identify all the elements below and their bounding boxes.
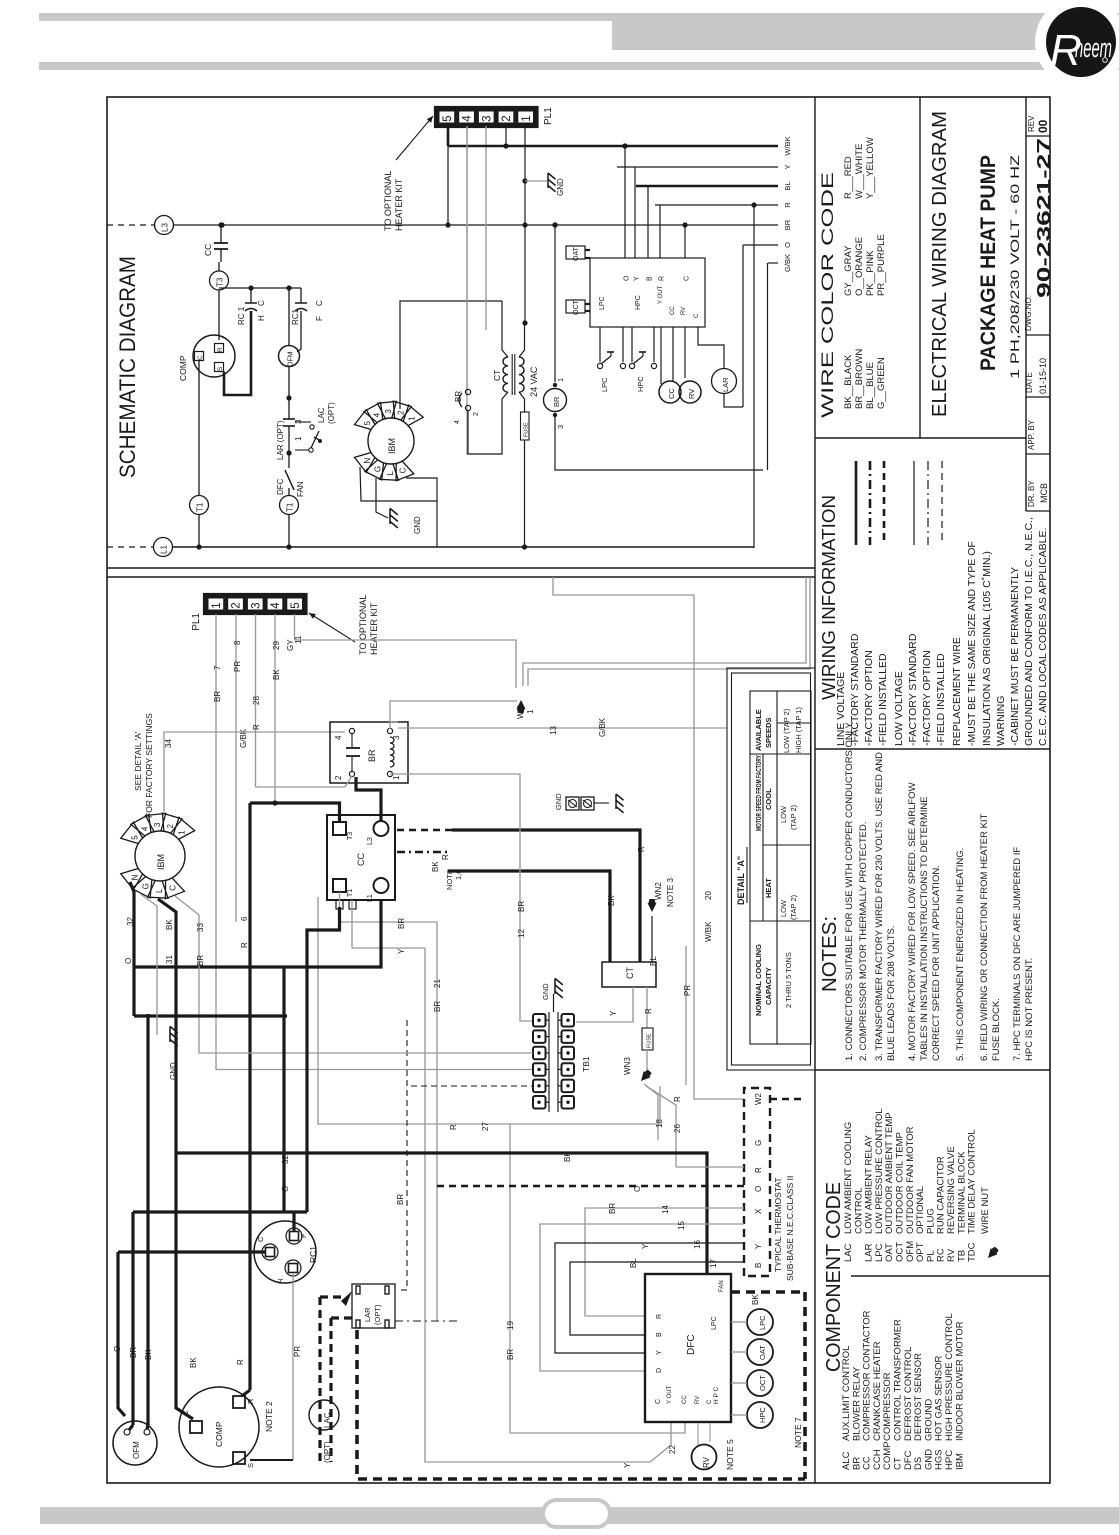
svg-text:-FIELD INSTALLED: -FIELD INSTALLED — [877, 653, 889, 746]
RV circle wiring — [692, 1445, 717, 1470]
svg-text:COMP: COMP — [178, 355, 188, 381]
BK thick wire to CT — [448, 871, 610, 962]
R 27 wire — [318, 897, 660, 1124]
svg-text:R: R — [656, 1314, 663, 1319]
svg-text:DFC: DFC — [686, 1334, 697, 1355]
CT transformer box wiring — [602, 962, 656, 987]
R thick wire to CT — [452, 830, 640, 962]
svg-text:RV: RV — [702, 1456, 711, 1468]
svg-text:HPC: HPC — [635, 295, 642, 310]
PL1 connector schematic — [436, 108, 538, 127]
svg-text:-FACTORY OPTION: -FACTORY OPTION — [921, 650, 933, 746]
svg-text:1: 1 — [521, 115, 533, 121]
wire BR3 right / G/BK 13 wire — [390, 722, 398, 729]
outdoor fan motor OFM — [279, 346, 300, 367]
svg-text:4: 4 — [334, 735, 343, 740]
run capacitor RC1 H C — [250, 288, 252, 303]
svg-text:LOW: LOW — [779, 805, 788, 823]
comp wires — [242, 1390, 250, 1396]
svg-text:Y___YELLOW: Y___YELLOW — [865, 137, 876, 199]
wire COMP C to T1 — [198, 361, 200, 496]
svg-text:G/BK: G/BK — [783, 254, 792, 272]
W/BK thick wire — [448, 145, 778, 148]
svg-text:N: N — [130, 874, 139, 880]
footer gray bar — [40, 1507, 1119, 1524]
svg-text:C: C — [197, 355, 204, 360]
sensor OAT — [747, 1339, 773, 1365]
svg-text:WN2: WN2 — [654, 882, 663, 900]
svg-text:WN: WN — [516, 705, 525, 719]
Y wire TB1 to CT — [576, 987, 633, 1022]
svg-text:PR: PR — [683, 985, 692, 996]
svg-text:NOTE 7: NOTE 7 — [793, 1417, 803, 1448]
header second thin gray bar — [39, 62, 1119, 70]
wire OFM down — [288, 367, 290, 399]
CC L3 wire thick — [356, 777, 381, 821]
svg-text:2: 2 — [501, 115, 513, 121]
LAR bottom to O wire — [724, 394, 743, 408]
svg-text:2. COMPRESSOR MOTOR THERMALLY: 2. COMPRESSOR MOTOR THERMALLY PROTECTED. — [858, 822, 869, 1061]
svg-text:R: R — [783, 202, 792, 208]
GND block mid — [566, 797, 579, 810]
svg-text:C.E.C. AND LOCAL CODES AS APPL: C.E.C. AND LOCAL CODES AS APPLICABLE. — [1037, 528, 1049, 746]
svg-text:RC 1: RC 1 — [237, 306, 246, 325]
svg-text:PR: PR — [233, 661, 242, 672]
BR relay box wiring — [330, 722, 408, 783]
svg-text:O: O — [113, 1346, 122, 1352]
svg-text:BK: BK — [165, 919, 174, 930]
svg-text:SPEEDS: SPEEDS — [764, 718, 773, 748]
svg-text:WN3: WN3 — [623, 1057, 632, 1075]
LAR OPT box wiring — [352, 1284, 395, 1328]
svg-text:BL: BL — [783, 181, 792, 190]
svg-text:5: 5 — [363, 420, 372, 425]
svg-text:TYPICAL THERMOSTAT: TYPICAL THERMOSTAT — [773, 1177, 783, 1272]
svg-text:B: B — [754, 1263, 763, 1268]
svg-text:3: 3 — [250, 602, 262, 608]
IBM lead 31 BK — [158, 899, 193, 1419]
Y wire — [617, 166, 778, 168]
svg-text:REV: REV — [1027, 115, 1036, 132]
svg-text:22: 22 — [668, 1445, 677, 1454]
svg-text:NOTES:: NOTES: — [819, 916, 841, 992]
svg-text:PL1: PL1 — [191, 613, 202, 631]
svg-text:(OPT): (OPT) — [327, 402, 336, 424]
wire RC1H to S thick — [224, 311, 251, 395]
component code divider — [851, 1275, 1050, 1277]
svg-text:12: 12 — [517, 929, 526, 938]
svg-text:IBM: IBM — [954, 1453, 965, 1470]
svg-text:B: B — [656, 1332, 663, 1337]
svg-text:Y: Y — [754, 1243, 763, 1249]
svg-text:RC1: RC1 — [291, 308, 300, 325]
svg-text:T3: T3 — [216, 277, 225, 287]
svg-text:O: O — [281, 1186, 290, 1192]
svg-text:PR__PURPLE: PR__PURPLE — [876, 234, 887, 296]
run capacitor RC1 wiring — [254, 1221, 316, 1283]
svg-text:PK__PINK: PK__PINK — [865, 250, 876, 296]
svg-text:3: 3 — [481, 115, 493, 121]
svg-text:CC: CC — [670, 306, 676, 315]
svg-text:1: 1 — [294, 436, 303, 441]
svg-text:4: 4 — [454, 420, 461, 424]
LPC switch schematic — [599, 327, 601, 362]
svg-text:LAR: LAR — [721, 377, 730, 392]
svg-text:BK: BK — [189, 1357, 198, 1368]
svg-text:20: 20 — [704, 891, 713, 900]
svg-text:LAC: LAC — [317, 407, 326, 423]
svg-text:G__GREEN: G__GREEN — [876, 357, 887, 409]
svg-text:CT: CT — [625, 967, 635, 979]
svg-text:Y: Y — [623, 1462, 632, 1468]
svg-text:17: 17 — [709, 1259, 718, 1268]
svg-text:19: 19 — [506, 1321, 515, 1330]
compressor COMP — [193, 335, 235, 377]
svg-text:2: 2 — [473, 412, 480, 416]
svg-text:01-15-10: 01-15-10 — [1038, 358, 1048, 394]
O 32 second — [282, 967, 285, 1212]
svg-text:OFM: OFM — [132, 1441, 141, 1459]
svg-text:Y OUT: Y OUT — [658, 285, 664, 304]
svg-text:BR: BR — [608, 1203, 617, 1214]
BL wire — [636, 185, 778, 188]
svg-text:NOTE 5: NOTE 5 — [725, 1439, 735, 1470]
svg-text:7. HPC TERMINALS ON DFC ARE JU: 7. HPC TERMINALS ON DFC ARE JUMPERED IF — [1012, 847, 1023, 1061]
svg-text:DR. BY: DR. BY — [1027, 480, 1036, 507]
svg-text:34: 34 — [164, 739, 173, 748]
svg-text:W2: W2 — [754, 1092, 763, 1105]
CT wires — [502, 301, 508, 357]
svg-text:C: C — [315, 300, 324, 306]
svg-text:LOW: LOW — [779, 899, 788, 917]
svg-text:5: 5 — [290, 602, 302, 608]
OAT sensor — [566, 246, 585, 259]
svg-text:GND: GND — [413, 516, 422, 534]
DFC bottom pin wires — [697, 1423, 699, 1445]
svg-text:L: L — [155, 888, 164, 893]
svg-text:BR: BR — [433, 1001, 442, 1012]
IBM N wire — [360, 467, 437, 547]
svg-text:RV: RV — [687, 389, 696, 399]
svg-text:R: R — [673, 1096, 682, 1102]
svg-text:24 VAC: 24 VAC — [529, 366, 539, 397]
svg-text:C: C — [181, 1410, 190, 1416]
O wire vertical — [742, 245, 744, 407]
svg-text:TDC: TDC — [967, 1242, 978, 1262]
svg-text:GROUNDED AND CONFORM TO I.E.C.: GROUNDED AND CONFORM TO I.E.C., N.E.C., — [1023, 517, 1035, 746]
svg-text:DETAIL "A": DETAIL "A" — [736, 856, 746, 905]
svg-text:GND: GND — [556, 178, 565, 196]
BL wire WN2 — [651, 916, 653, 962]
svg-text:REPLACEMENT WIRE: REPLACEMENT WIRE — [951, 637, 963, 746]
svg-text:32: 32 — [281, 1155, 290, 1164]
IBM lead BR 33 — [175, 896, 533, 1053]
svg-text:00: 00 — [1036, 119, 1050, 133]
svg-text:GND: GND — [554, 793, 563, 810]
svg-text:BK: BK — [431, 861, 440, 872]
svg-text:CT: CT — [492, 370, 502, 381]
18 wire — [644, 1084, 658, 1140]
svg-text:HPC: HPC — [758, 1407, 767, 1423]
wire nut legend — [985, 1245, 1000, 1261]
header top thin gray bar — [39, 13, 1119, 21]
svg-text:TIME DELAY CONTROL: TIME DELAY CONTROL — [967, 1129, 978, 1234]
terminal block TB1 — [533, 1014, 546, 1027]
svg-text:COMP: COMP — [214, 1421, 224, 1447]
svg-text:GY__GRAY: GY__GRAY — [843, 245, 854, 296]
svg-text:-FACTORY STANDARD: -FACTORY STANDARD — [907, 633, 919, 746]
svg-text:D: D — [656, 1368, 663, 1373]
svg-text:C: C — [168, 885, 177, 891]
svg-text:HPC: HPC — [636, 376, 645, 392]
BR dashed wire — [406, 1090, 408, 1290]
svg-text:W___WHITE: W___WHITE — [854, 144, 865, 199]
defrost board schematic — [590, 258, 705, 327]
svg-text:WIRING INFORMATION: WIRING INFORMATION — [819, 495, 839, 700]
PL1 pin stubs — [447, 126, 450, 146]
svg-text:2: 2 — [166, 823, 175, 828]
svg-text:Y: Y — [641, 1243, 650, 1249]
svg-text:Y OUT: Y OUT — [667, 1385, 673, 1404]
svg-text:H: H — [257, 315, 266, 321]
svg-text:SEE DETAIL 'A': SEE DETAIL 'A' — [133, 731, 143, 791]
FUSE schematic — [521, 412, 530, 440]
IBM G wire to GND — [376, 478, 388, 518]
svg-text:-CABINET MUST BE PERMANENTLY: -CABINET MUST BE PERMANENTLY — [1009, 567, 1021, 746]
svg-text:R: R — [637, 846, 646, 852]
svg-text:FUSE BLOCK.: FUSE BLOCK. — [991, 998, 1002, 1061]
O wire — [743, 244, 778, 246]
svg-text:4: 4 — [372, 412, 381, 417]
svg-text:R___RED: R___RED — [843, 156, 854, 199]
svg-text:31: 31 — [165, 955, 174, 964]
svg-text:1: 1 — [392, 775, 401, 780]
svg-text:Y: Y — [656, 1350, 663, 1355]
svg-text:BL: BL — [629, 1258, 638, 1268]
LAC circle OPT — [309, 1400, 339, 1430]
bus wire y470 — [555, 415, 763, 470]
svg-text:13: 13 — [549, 726, 558, 735]
svg-text:CAPACITY: CAPACITY — [764, 967, 773, 1005]
FUSE wiring — [642, 1028, 653, 1050]
svg-text:SCHEMATIC DIAGRAM: SCHEMATIC DIAGRAM — [115, 256, 140, 478]
svg-text:TABLES IN INSTALLATION INSTRUC: TABLES IN INSTALLATION INSTRUCTIONS TO D… — [919, 796, 930, 1061]
footer page pill — [543, 1500, 610, 1527]
sensor OCT — [747, 1370, 773, 1396]
svg-text:PR: PR — [293, 1346, 302, 1357]
PL1 connector wiring — [205, 595, 307, 614]
svg-text:(TAP 2): (TAP 2) — [789, 804, 798, 830]
DFC FAN defrost switch — [288, 453, 290, 468]
heater kit arrow schematic — [396, 116, 433, 160]
svg-text:2: 2 — [397, 410, 406, 415]
BR relay circle schematic — [552, 222, 557, 227]
L1 line circle — [154, 538, 173, 557]
svg-text:RV: RV — [681, 307, 687, 315]
svg-text:7: 7 — [213, 665, 222, 670]
node line y288 — [219, 287, 301, 289]
svg-text:PACKAGE HEAT PUMP: PACKAGE HEAT PUMP — [977, 155, 1000, 371]
LAC OPT switch — [295, 421, 311, 423]
svg-text:T1: T1 — [347, 889, 354, 897]
svg-text:RV: RV — [695, 1396, 701, 1404]
svg-text:4: 4 — [270, 602, 282, 609]
svg-text:HEATER KIT: HEATER KIT — [394, 178, 404, 231]
svg-text:4: 4 — [141, 826, 150, 831]
PL1 pin wires with labels — [216, 614, 533, 1070]
svg-text:R: R — [441, 854, 450, 860]
BK main thick wire — [176, 1153, 707, 1274]
svg-text:WIRE COLOR CODE: WIRE COLOR CODE — [818, 172, 837, 418]
svg-text:TB1: TB1 — [581, 1056, 591, 1072]
svg-text:28: 28 — [252, 696, 261, 705]
svg-text:-FACTORY OPTION: -FACTORY OPTION — [863, 650, 875, 746]
heavy dashed boundary — [357, 1330, 738, 1479]
svg-text:BR: BR — [196, 955, 205, 966]
svg-text:R: R — [217, 347, 224, 352]
gnd at bundle — [141, 894, 158, 1035]
HPC switch schematic — [631, 327, 633, 362]
svg-text:DWG.NO.: DWG.NO. — [1024, 295, 1033, 331]
svg-text:1: 1 — [178, 830, 187, 835]
svg-text:FAN: FAN — [296, 481, 305, 497]
T1 circle left — [190, 496, 209, 515]
svg-text:HEATER KIT: HEATER KIT — [369, 602, 379, 655]
svg-text:TO OPTIONAL: TO OPTIONAL — [383, 171, 393, 231]
Rheem logo — [1035, 0, 1119, 88]
CC contactor box wiring — [327, 815, 395, 900]
svg-text:L3: L3 — [161, 223, 170, 232]
bundle horizontals — [134, 1014, 287, 1017]
CC lower wires — [340, 892, 438, 922]
compressor COMP wiring — [179, 1387, 259, 1467]
svg-text:G: G — [373, 466, 382, 472]
Y OUT pin stub — [660, 327, 662, 384]
board top pin wires — [624, 146, 626, 258]
OCT sensor — [566, 300, 585, 313]
IBM blade2 wire up — [400, 301, 502, 409]
svg-text:BK__BLACK: BK__BLACK — [843, 354, 854, 409]
svg-text:1. CONNECTORS SUITABLE FOR USE: 1. CONNECTORS SUITABLE FOR USE WITH COPP… — [844, 721, 855, 1061]
second wire to WN — [523, 577, 806, 686]
svg-text:Y: Y — [397, 948, 406, 954]
svg-text:BR__BROWN: BR__BROWN — [854, 349, 865, 409]
svg-text:LAR: LAR — [363, 1307, 372, 1322]
svg-text:1: 1 — [211, 602, 223, 608]
svg-text:5. THIS COMPONENT ENERGIZED IN: 5. THIS COMPONENT ENERGIZED IN HEATING. — [955, 848, 966, 1061]
svg-text:T1: T1 — [286, 502, 295, 512]
svg-text:BLUE LEADS FOR 208 VOLTS.: BLUE LEADS FOR 208 VOLTS. — [886, 925, 897, 1061]
CC contactor coil circle — [672, 327, 674, 381]
R wire — [655, 204, 778, 206]
BR 19 wire — [510, 1124, 685, 1433]
svg-text:S: S — [217, 366, 224, 371]
svg-text:3. TRANSFORMER FACTORY WIRED F: 3. TRANSFORMER FACTORY WIRED FOR 230 VOL… — [874, 752, 885, 1061]
wire nut WN 1 — [517, 700, 526, 713]
svg-text:G/BK: G/BK — [598, 717, 607, 737]
notes bottom line — [815, 1069, 1050, 1071]
L3 rail wire — [174, 224, 779, 226]
svg-text:SUB-BASE N.E.C.CLASS II: SUB-BASE N.E.C.CLASS II — [785, 1176, 795, 1281]
svg-text:90-23621-27: 90-23621-27 — [1034, 138, 1054, 298]
L3 line circle — [155, 216, 174, 235]
svg-text:O__ORANGE: O__ORANGE — [854, 237, 865, 296]
svg-text:W/BK: W/BK — [704, 921, 713, 942]
svg-text:ELECTRICAL WIRING DIAGRAM: ELECTRICAL WIRING DIAGRAM — [929, 111, 951, 417]
svg-text:BK: BK — [272, 669, 281, 680]
svg-text:3: 3 — [556, 425, 565, 429]
svg-text:MCB: MCB — [1039, 483, 1049, 503]
BR coil — [387, 728, 392, 733]
svg-text:32: 32 — [126, 917, 135, 926]
svg-text:IBM: IBM — [387, 438, 397, 454]
svg-text:OAT: OAT — [573, 246, 580, 261]
svg-text:27: 27 — [481, 1122, 490, 1131]
svg-text:B: B — [647, 276, 654, 281]
svg-text:Y: Y — [634, 276, 641, 281]
dashed O wire to TB1 — [407, 1020, 533, 1086]
svg-text:L3: L3 — [367, 837, 374, 845]
12 BR wire — [390, 774, 533, 1021]
main feed horizontal — [134, 900, 381, 967]
svg-text:5: 5 — [130, 835, 139, 840]
svg-text:BK: BK — [144, 1349, 153, 1360]
W2 wire dashed — [770, 1098, 805, 1100]
svg-text:FUSE: FUSE — [524, 422, 530, 437]
svg-text:BR: BR — [213, 691, 222, 702]
svg-text:LOW (TAP 2): LOW (TAP 2) — [782, 708, 791, 753]
svg-text:BL: BL — [649, 956, 658, 966]
LAR coil circle — [698, 327, 724, 369]
svg-text:BK: BK — [751, 1294, 760, 1305]
svg-text:T3: T3 — [347, 832, 354, 840]
CC T3 wire thick — [250, 803, 340, 822]
svg-text:IBM: IBM — [156, 854, 166, 870]
svg-text:29: 29 — [272, 641, 281, 650]
heavy dashed LAC wires — [318, 1297, 321, 1462]
svg-text:FUSE: FUSE — [647, 1033, 653, 1048]
svg-text:C: C — [655, 1399, 662, 1404]
svg-text:BR: BR — [517, 901, 526, 912]
svg-text:WIRE NUT: WIRE NUT — [980, 1187, 991, 1234]
svg-text:INSULATION AS ORIGINAL (105 C˚: INSULATION AS ORIGINAL (105 C˚MIN.) — [981, 551, 993, 746]
right column divider — [814, 97, 816, 1483]
svg-text:F: F — [315, 316, 324, 321]
svg-text:LPC: LPC — [599, 296, 606, 310]
RC1 H wire PR — [292, 1274, 294, 1460]
G/BK wire — [768, 262, 778, 264]
svg-text:2 THRU 5 TONS: 2 THRU 5 TONS — [784, 952, 793, 1008]
LAR OPT capacitor — [288, 398, 290, 419]
svg-text:LAC: LAC — [843, 1243, 854, 1262]
34 wire — [164, 732, 345, 812]
svg-text:1: 1 — [407, 416, 416, 421]
svg-text:R: R — [754, 1167, 763, 1173]
svg-text:NOTE 2: NOTE 2 — [264, 1401, 274, 1432]
svg-text:14: 14 — [661, 1205, 670, 1214]
svg-text:C: C — [256, 1236, 265, 1242]
svg-text:6: 6 — [240, 916, 249, 921]
OFM motor wiring — [113, 1421, 157, 1465]
svg-text:16: 16 — [693, 1240, 702, 1249]
svg-text:R: R — [644, 1008, 653, 1014]
thermostat wires — [676, 1166, 744, 1168]
diagram outer border — [107, 97, 1050, 1483]
divider schematic/wiring — [107, 567, 815, 569]
heater kit arrow wiring — [309, 613, 355, 642]
svg-text:OCT: OCT — [573, 300, 580, 316]
svg-text:LPC: LPC — [758, 1315, 767, 1330]
